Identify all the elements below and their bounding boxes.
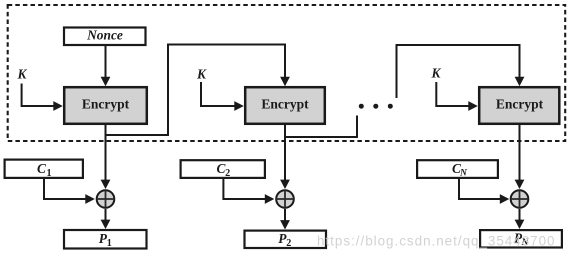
wire C2 to XOR2	[223, 179, 265, 199]
node XOR2	[276, 190, 294, 208]
wire CN to XOR3	[459, 179, 500, 199]
box CN	[417, 160, 498, 178]
wire XOR2 to P2	[284, 209, 286, 221]
svg-text:K: K	[431, 66, 442, 81]
wire feedback stub into Encrypt3	[397, 45, 520, 98]
wire Encrypt2 output down to XOR2	[284, 125, 286, 181]
box P2	[245, 231, 327, 248]
svg-text:Encrypt: Encrypt	[496, 96, 544, 111]
svg-text:1: 1	[107, 238, 112, 249]
block Encrypt 1	[64, 87, 147, 124]
svg-text:K: K	[196, 67, 207, 82]
box C1	[5, 160, 83, 178]
svg-text:2: 2	[225, 168, 230, 179]
wire XOR1 to P1	[105, 209, 107, 220]
box P1	[64, 230, 147, 249]
wire K2 to Encrypt2	[201, 82, 235, 106]
svg-text:Encrypt: Encrypt	[82, 96, 130, 111]
block Encrypt 2	[245, 87, 325, 124]
svg-text:2: 2	[286, 238, 291, 249]
box Nonce	[64, 28, 146, 46]
box C2	[181, 160, 265, 178]
node XOR1	[97, 190, 115, 208]
wire XOR3 to PN	[519, 209, 521, 220]
wire Encrypt1 output down to XOR1	[105, 125, 107, 181]
block Encrypt 3	[479, 87, 559, 124]
svg-text:Nonce: Nonce	[86, 28, 123, 43]
svg-text:Encrypt: Encrypt	[261, 96, 309, 111]
wire C1 to XOR1	[44, 179, 86, 199]
dashed boundary box	[8, 5, 566, 141]
box PN	[480, 230, 562, 247]
wire Nonce to Encrypt1	[105, 46, 107, 78]
svg-text:K: K	[17, 67, 28, 82]
svg-text:N: N	[459, 167, 468, 178]
wire Encrypt2 feedback stub toward ellipsis	[285, 116, 357, 138]
wire K3 to Encrypt3	[436, 82, 468, 106]
wire K1 to Encrypt1	[22, 84, 54, 107]
svg-text:https://blog.csdn.net/qq_35443: https://blog.csdn.net/qq_35443700	[317, 233, 556, 248]
node XOR3	[511, 190, 529, 208]
wire Encrypt1 feedback to Encrypt2	[106, 45, 286, 136]
wire Encrypt3 output down to XOR3	[519, 125, 521, 181]
svg-text:1: 1	[46, 168, 51, 179]
ellipsis dots	[359, 104, 364, 109]
